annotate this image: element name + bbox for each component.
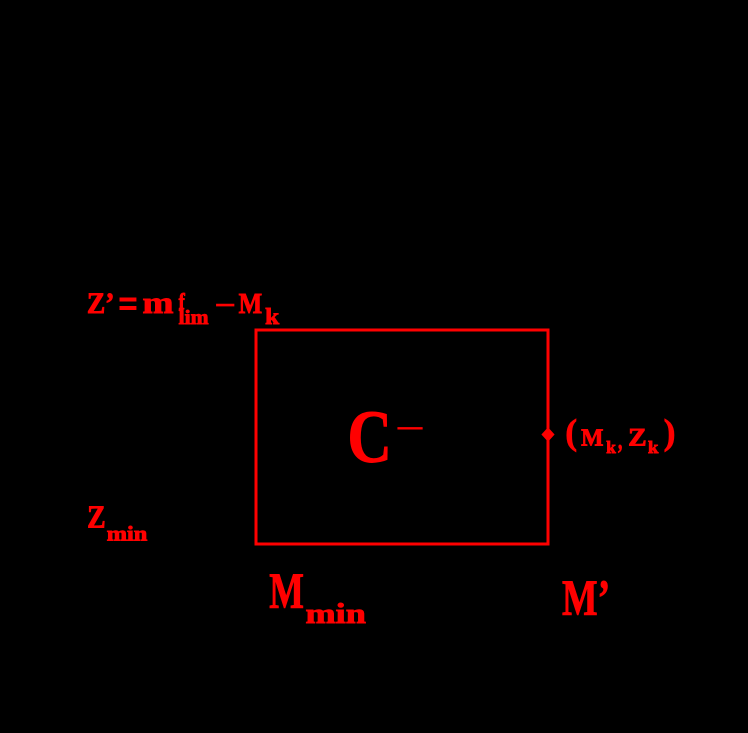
svg-text:−: − <box>215 291 236 320</box>
svg-text:Z: Z <box>87 499 106 534</box>
rectangle boundary of region C- <box>256 330 548 544</box>
svg-text:M: M <box>269 563 304 619</box>
svg-text:lim: lim <box>179 307 209 329</box>
svg-text:M: M <box>581 425 603 452</box>
svg-text:Z: Z <box>628 423 647 452</box>
svg-text:m: m <box>142 286 173 320</box>
svg-text:k: k <box>648 438 659 457</box>
svg-text:min: min <box>107 524 148 546</box>
svg-text:=: = <box>118 280 138 328</box>
svg-text:min: min <box>305 598 365 630</box>
svg-text:): ) <box>664 412 676 452</box>
data point marker (M_k, Z_k) diamond on right edge <box>541 427 554 441</box>
svg-text:M: M <box>239 289 263 320</box>
svg-text:C: C <box>347 396 392 479</box>
svg-text:M’: M’ <box>562 570 610 626</box>
svg-text:Z’: Z’ <box>87 287 115 320</box>
svg-text:−: − <box>396 416 424 440</box>
svg-text:(: ( <box>565 412 577 452</box>
svg-text:k: k <box>606 438 616 457</box>
svg-text:,: , <box>618 426 622 455</box>
svg-text:k: k <box>265 304 279 329</box>
